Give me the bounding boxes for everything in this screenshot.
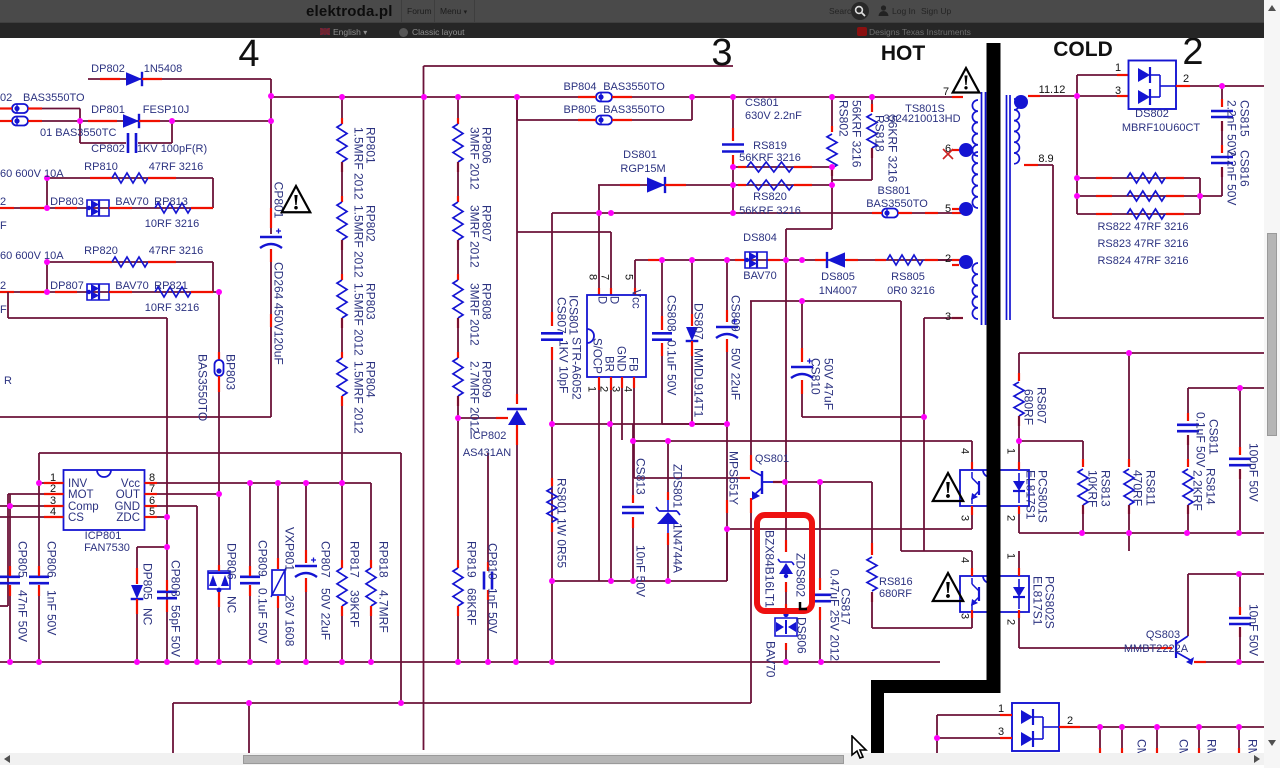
svg-text:0.1uF 50V: 0.1uF 50V	[256, 588, 270, 643]
svg-text:R: R	[4, 375, 12, 387]
svg-text:BP805: BP805	[563, 104, 596, 116]
svg-text:1: 1	[998, 703, 1004, 715]
svg-text:3: 3	[959, 613, 971, 619]
svg-text:100pF 50V: 100pF 50V	[1247, 443, 1261, 502]
svg-text:DP801: DP801	[91, 104, 125, 116]
svg-text:MBRF10U60CT: MBRF10U60CT	[1122, 122, 1201, 134]
svg-text:4: 4	[50, 506, 56, 518]
svg-text:2: 2	[945, 253, 951, 265]
svg-text:4.7MRF: 4.7MRF	[377, 590, 391, 633]
svg-text:BAV70: BAV70	[115, 196, 148, 208]
svg-text:RP820: RP820	[84, 245, 118, 257]
svg-text:630V 2.2nF: 630V 2.2nF	[745, 110, 802, 122]
svg-text:56KRF 3216: 56KRF 3216	[739, 205, 801, 217]
svg-text:CS810: CS810	[809, 358, 823, 395]
svg-text:HOT: HOT	[881, 42, 926, 65]
svg-text:CP807: CP807	[319, 541, 333, 578]
svg-text:3MRF 2012: 3MRF 2012	[468, 283, 482, 346]
svg-text:RS802: RS802	[837, 100, 851, 137]
svg-text:0R0 3216: 0R0 3216	[887, 285, 935, 297]
svg-text:RP819: RP819	[465, 541, 479, 578]
svg-text:56KRF 3216: 56KRF 3216	[850, 100, 864, 168]
svg-text:RS807: RS807	[1035, 387, 1049, 424]
svg-text:ICP802: ICP802	[470, 430, 507, 442]
svg-text:10RF 3216: 10RF 3216	[145, 302, 199, 314]
svg-text:D: D	[596, 296, 608, 304]
svg-text:RP817: RP817	[348, 541, 362, 578]
svg-text:5: 5	[623, 274, 635, 280]
svg-text:RS805: RS805	[891, 271, 925, 283]
svg-text:CP808: CP808	[169, 560, 183, 597]
svg-text:BAV70: BAV70	[764, 641, 778, 678]
svg-text:RS811: RS811	[1144, 470, 1158, 506]
svg-text:S/OCP: S/OCP	[591, 338, 603, 374]
svg-text:3MRF 2012: 3MRF 2012	[468, 127, 482, 190]
svg-text:50V 47uF: 50V 47uF	[822, 358, 836, 410]
svg-text:470RF: 470RF	[1131, 470, 1145, 506]
svg-text:DP802: DP802	[91, 63, 125, 75]
svg-text:1KV 10pF: 1KV 10pF	[557, 340, 571, 393]
svg-text:CP809: CP809	[256, 540, 270, 577]
svg-text:1N4744A: 1N4744A	[671, 523, 685, 573]
svg-text:3: 3	[945, 311, 951, 323]
svg-text:68KRF: 68KRF	[465, 588, 479, 625]
svg-text:2.2nF 50V: 2.2nF 50V	[1225, 150, 1239, 205]
svg-text:CP806: CP806	[45, 541, 59, 578]
svg-text:2: 2	[1005, 515, 1017, 521]
svg-text:1nF 50V: 1nF 50V	[45, 590, 59, 635]
svg-text:47RF 3216: 47RF 3216	[149, 161, 203, 173]
svg-text:56pF 50V: 56pF 50V	[169, 605, 183, 657]
svg-text:2: 2	[1183, 73, 1189, 85]
svg-text:BAS3550TO: BAS3550TO	[866, 198, 928, 210]
svg-text:50V 22uF: 50V 22uF	[729, 348, 743, 400]
svg-text:CS813: CS813	[634, 458, 648, 495]
svg-text:10nF 50V: 10nF 50V	[634, 545, 648, 597]
svg-text:3: 3	[1115, 85, 1121, 97]
svg-text:CD264 450V120uF: CD264 450V120uF	[272, 262, 286, 365]
svg-text:RP818: RP818	[377, 541, 391, 578]
svg-text:BR: BR	[603, 356, 615, 372]
svg-text:1: 1	[1005, 448, 1017, 454]
svg-text:BAS3550TO: BAS3550TO	[603, 104, 665, 116]
svg-text:11.12: 11.12	[1039, 84, 1066, 96]
svg-text:7: 7	[599, 274, 611, 280]
svg-text:5: 5	[149, 506, 155, 518]
svg-text:RS801: RS801	[555, 478, 569, 515]
svg-text:AS431AN: AS431AN	[463, 447, 511, 459]
svg-text:8: 8	[587, 274, 599, 280]
svg-text:3: 3	[998, 726, 1004, 738]
svg-text:!: !	[944, 478, 952, 504]
svg-text:3: 3	[959, 515, 971, 521]
svg-text:RS816: RS816	[879, 576, 913, 588]
svg-text:60 600V 10A: 60 600V 10A	[0, 250, 64, 262]
svg-text:56KRF 3216: 56KRF 3216	[739, 152, 801, 164]
svg-text:NC: NC	[141, 608, 155, 626]
svg-text:EL817S1: EL817S1	[1031, 576, 1045, 626]
svg-text:3MRF 2012: 3MRF 2012	[468, 205, 482, 268]
svg-text:2.2nF 50V: 2.2nF 50V	[1225, 100, 1239, 155]
svg-text:QS803: QS803	[1146, 629, 1180, 641]
svg-text:680RF: 680RF	[1022, 389, 1036, 425]
svg-text:RP813: RP813	[154, 196, 188, 208]
svg-text:D: D	[608, 296, 620, 304]
svg-text:2: 2	[0, 196, 6, 208]
svg-text:RS820: RS820	[753, 191, 787, 203]
svg-text:!: !	[963, 71, 970, 95]
svg-text:BAS3550TO: BAS3550TO	[23, 92, 85, 104]
svg-text:ZDS801: ZDS801	[671, 464, 685, 508]
svg-text:RP821: RP821	[154, 280, 188, 292]
svg-text:DS805: DS805	[821, 271, 855, 283]
svg-text:47RF 3216: 47RF 3216	[149, 245, 203, 257]
svg-text:RS819: RS819	[753, 140, 787, 152]
svg-text:4: 4	[622, 386, 634, 392]
svg-text:2.2KRF: 2.2KRF	[1191, 470, 1205, 511]
svg-text:DP803: DP803	[50, 196, 84, 208]
svg-text:0.1uF 50V: 0.1uF 50V	[665, 340, 679, 395]
svg-text:RS814: RS814	[1204, 468, 1218, 505]
svg-text:2: 2	[0, 280, 6, 292]
svg-text:MOT: MOT	[68, 489, 94, 501]
svg-text:7: 7	[943, 86, 949, 98]
svg-text:STR-A6052: STR-A6052	[570, 337, 584, 400]
svg-text:BP803: BP803	[224, 354, 238, 390]
svg-text:VXP801: VXP801	[283, 527, 297, 571]
svg-text:COLD: COLD	[1053, 38, 1113, 61]
svg-text:CS811: CS811	[1207, 419, 1221, 455]
svg-text:CS809: CS809	[729, 295, 743, 332]
svg-text:NC: NC	[225, 596, 239, 614]
svg-text:ICP801: ICP801	[85, 530, 122, 542]
svg-text:10nF 50V: 10nF 50V	[1247, 604, 1261, 656]
svg-text:56KRF 3216: 56KRF 3216	[886, 115, 900, 183]
svg-text:BAV70: BAV70	[743, 270, 776, 282]
svg-text:1N4007: 1N4007	[819, 285, 858, 297]
svg-text:4: 4	[959, 557, 971, 563]
svg-text:50V 22uF: 50V 22uF	[319, 588, 333, 640]
svg-text:MMBT2222A: MMBT2222A	[1124, 643, 1189, 655]
svg-text:26V 1608: 26V 1608	[283, 595, 297, 647]
svg-text:02: 02	[0, 92, 12, 104]
svg-text:BP804: BP804	[563, 81, 596, 93]
svg-text:1: 1	[586, 386, 598, 392]
svg-text:60 600V 10A: 60 600V 10A	[0, 168, 64, 180]
svg-text:1.5MRF 2012: 1.5MRF 2012	[352, 283, 366, 356]
svg-text:DP807: DP807	[50, 280, 84, 292]
svg-text:680RF: 680RF	[879, 588, 912, 600]
svg-text:RS823 47RF 3216: RS823 47RF 3216	[1097, 238, 1188, 250]
svg-text:10RF 3216: 10RF 3216	[145, 218, 199, 230]
svg-text:CS807: CS807	[555, 297, 569, 334]
svg-text:DS806: DS806	[795, 617, 809, 654]
svg-text:CP802: CP802	[91, 143, 125, 155]
svg-text:1: 1	[1115, 62, 1121, 74]
svg-text:CS808: CS808	[665, 295, 679, 332]
svg-text:FESP10J: FESP10J	[143, 104, 189, 116]
svg-text:3: 3	[711, 32, 732, 74]
svg-text:CS801: CS801	[745, 97, 779, 109]
svg-text:1.5MRF 2012: 1.5MRF 2012	[352, 361, 366, 434]
svg-text:BS801: BS801	[877, 185, 910, 197]
svg-text:1N5408: 1N5408	[144, 63, 183, 75]
svg-text:QS801: QS801	[755, 453, 789, 465]
svg-text:FB: FB	[627, 357, 639, 372]
svg-text:0.1uF 50V: 0.1uF 50V	[1194, 412, 1208, 467]
svg-text:39KRF: 39KRF	[348, 590, 362, 627]
svg-text:BZX84B16LT1: BZX84B16LT1	[763, 530, 777, 608]
svg-text:10KRF: 10KRF	[1086, 470, 1100, 507]
svg-text:MPS651Y: MPS651Y	[727, 451, 741, 505]
svg-text:DP806: DP806	[225, 543, 239, 580]
svg-text:1nF 50V: 1nF 50V	[486, 588, 500, 633]
svg-text:4: 4	[959, 448, 971, 454]
svg-text:CP805: CP805	[16, 541, 30, 578]
svg-text:BAS3550TO: BAS3550TO	[196, 354, 210, 421]
svg-text:2: 2	[1067, 715, 1073, 727]
svg-text:7: 7	[149, 483, 155, 495]
svg-text:2: 2	[50, 483, 56, 495]
svg-text:GND: GND	[615, 346, 627, 372]
svg-text:!: !	[944, 578, 952, 604]
svg-text:8.9: 8.9	[1038, 153, 1053, 165]
svg-text:RS824 47RF 3216: RS824 47RF 3216	[1097, 255, 1188, 267]
svg-text:DS807: DS807	[692, 303, 706, 340]
svg-text:BAV70: BAV70	[115, 280, 148, 292]
svg-text:F: F	[0, 304, 7, 316]
svg-text:1.5MRF 2012: 1.5MRF 2012	[352, 205, 366, 278]
svg-text:RS822 47RF 3216: RS822 47RF 3216	[1097, 221, 1188, 233]
svg-text:DS802: DS802	[1135, 108, 1169, 120]
svg-text:RS813: RS813	[1099, 470, 1113, 507]
svg-text:ZDS802: ZDS802	[794, 553, 808, 597]
svg-text:2.7MRF 2012: 2.7MRF 2012	[468, 361, 482, 434]
svg-text:OUT: OUT	[116, 489, 140, 501]
svg-text:FAN7530: FAN7530	[84, 542, 130, 554]
svg-text:5: 5	[945, 203, 951, 215]
svg-text:F: F	[0, 220, 7, 232]
svg-text:MMDL914T1: MMDL914T1	[692, 348, 706, 418]
svg-text:4: 4	[238, 33, 259, 75]
svg-text:CS815: CS815	[1238, 100, 1252, 137]
svg-text:01 BAS3550TC: 01 BAS3550TC	[40, 127, 116, 139]
svg-text:2: 2	[1005, 619, 1017, 625]
svg-text:DP805: DP805	[141, 563, 155, 600]
svg-text:DS804: DS804	[743, 232, 777, 244]
svg-text:RGP15M: RGP15M	[620, 163, 665, 175]
svg-text:CS816: CS816	[1238, 150, 1252, 187]
svg-text:47nF 50V: 47nF 50V	[16, 590, 30, 642]
svg-text:CS817: CS817	[839, 588, 853, 625]
svg-text:CS: CS	[68, 512, 84, 524]
svg-text:1: 1	[1005, 553, 1017, 559]
svg-text:3324210013HD: 3324210013HD	[883, 113, 960, 125]
svg-text:ZDC: ZDC	[116, 512, 140, 524]
svg-text:EL817S1: EL817S1	[1024, 470, 1038, 520]
svg-text:RP810: RP810	[84, 161, 118, 173]
svg-text:!: !	[292, 189, 300, 214]
svg-text:Vcc: Vcc	[630, 289, 642, 308]
svg-text:DS801: DS801	[623, 149, 657, 161]
svg-text:1W 0R55: 1W 0R55	[555, 518, 569, 568]
svg-text:1.5MRF 2012: 1.5MRF 2012	[352, 127, 366, 200]
svg-text:CP810: CP810	[486, 543, 500, 580]
svg-text:BAS3550TO: BAS3550TO	[603, 81, 665, 93]
svg-text:1KV 100pF(R): 1KV 100pF(R)	[137, 143, 207, 155]
